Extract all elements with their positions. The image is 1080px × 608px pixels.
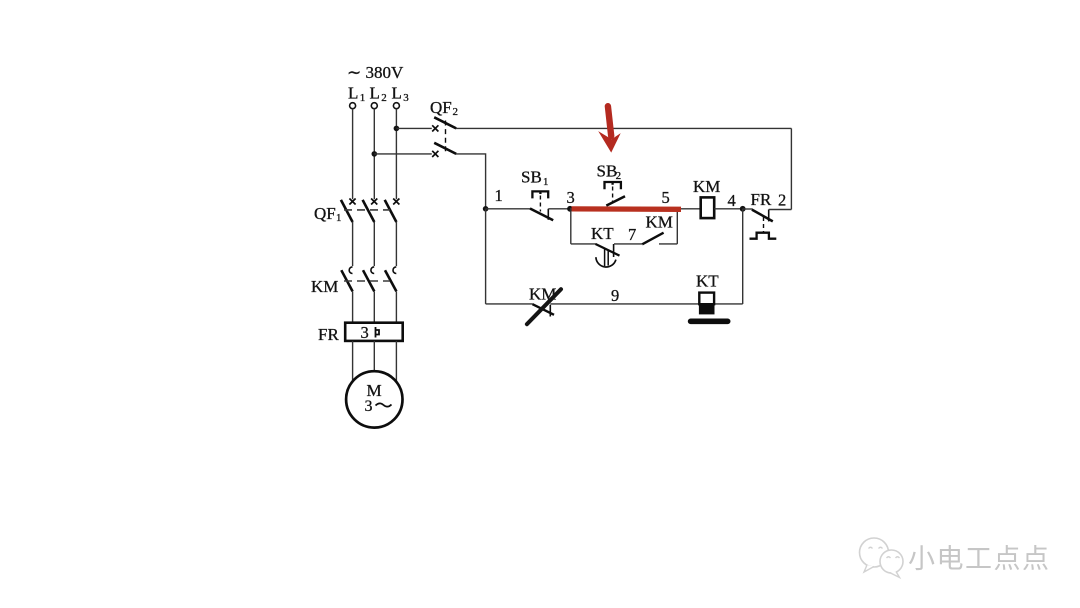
wire L2 vertical	[373, 109, 375, 200]
KM pole2 arc	[371, 267, 374, 274]
wire to QF2 pole2	[374, 153, 432, 155]
KT black bar	[691, 318, 728, 324]
wire L2 mid	[373, 222, 375, 266]
KM pole1 arc	[349, 267, 352, 274]
svg-text:SB: SB	[597, 161, 618, 180]
svg-text:L: L	[348, 84, 358, 103]
node 1	[483, 206, 489, 212]
bottom rung right	[550, 303, 742, 305]
QF1 pole2 blade	[363, 200, 375, 222]
branch bottom left wire	[571, 243, 596, 245]
wire L3 vertical	[395, 109, 397, 200]
branch left vertical	[570, 209, 572, 244]
svg-text:∼ 380V: ∼ 380V	[347, 63, 404, 82]
branch right vertical	[676, 209, 678, 244]
QF1 pole3 x	[393, 199, 399, 205]
QF1 pole3 blade	[385, 200, 397, 222]
wire L1 low	[352, 291, 354, 322]
QF1 pole2 x	[371, 199, 377, 205]
red arrow shaft	[608, 106, 611, 136]
svg-text:2: 2	[381, 92, 387, 104]
terminal L2	[371, 103, 377, 109]
KM pole2 blade	[363, 270, 374, 291]
svg-text:7: 7	[628, 225, 636, 244]
wire L1 mid	[352, 222, 354, 266]
KT delayed contact blade	[596, 244, 620, 256]
svg-text:3: 3	[361, 323, 369, 342]
KT delay stems	[605, 249, 609, 266]
svg-text:KT: KT	[591, 224, 614, 243]
svg-text:QF: QF	[314, 204, 336, 223]
KM nc stub	[549, 305, 551, 317]
FR box heater glyph	[376, 327, 380, 338]
watermark icon	[860, 538, 904, 578]
QF1 dashed link	[344, 209, 390, 211]
top rail wire	[456, 127, 792, 129]
bottom rung left	[486, 303, 533, 305]
FR short wire	[743, 208, 753, 210]
svg-text:KM: KM	[646, 213, 673, 232]
terminal L1	[350, 103, 356, 109]
SB2 button cap	[605, 182, 621, 189]
branch bottom right wire	[659, 243, 677, 245]
QF2 pole1 blade	[434, 117, 456, 128]
svg-text:KM: KM	[693, 177, 720, 196]
svg-text:FR: FR	[318, 325, 339, 344]
svg-text:4: 4	[728, 191, 736, 210]
FR right stub	[768, 210, 770, 222]
FR blade	[752, 210, 773, 222]
KM coil	[701, 197, 715, 218]
svg-text:2: 2	[778, 191, 786, 210]
svg-text:1: 1	[336, 212, 342, 224]
wire L2 to motor	[373, 341, 375, 371]
black crossout over KM nc	[527, 289, 561, 324]
svg-text:QF: QF	[430, 98, 452, 117]
FR box	[345, 323, 403, 341]
SB1 plunger dashed	[539, 196, 541, 212]
svg-text:5: 5	[662, 188, 670, 207]
svg-text:1: 1	[360, 92, 366, 104]
KT delay cup arc	[596, 257, 616, 267]
svg-text:小电工点点: 小电工点点	[908, 544, 1051, 574]
QF2 link dashed	[445, 121, 447, 152]
QF1 pole1 blade	[341, 200, 353, 222]
svg-text:3: 3	[403, 92, 409, 104]
KM aux NO blade	[642, 233, 663, 245]
KM nc blade	[533, 304, 555, 315]
svg-text:3: 3	[567, 188, 575, 207]
SB1 right stub	[547, 209, 549, 220]
wire node1 to SB1	[486, 208, 531, 210]
svg-text:FR: FR	[751, 190, 772, 209]
FR out wire	[769, 209, 792, 211]
node on L2	[372, 151, 378, 157]
branch bottom mid wire	[614, 243, 642, 245]
terminal L3	[393, 103, 399, 109]
svg-text:9: 9	[611, 286, 619, 305]
svg-text:1: 1	[495, 186, 503, 205]
svg-text:KM: KM	[311, 277, 338, 296]
wire coil to node4	[714, 208, 743, 210]
svg-text:3: 3	[365, 398, 373, 415]
FR plunger dashed	[763, 217, 765, 232]
wire L3 low	[395, 291, 397, 322]
node 3	[567, 206, 573, 212]
SB2 plunger dashed	[612, 187, 614, 203]
wire L3 mid	[395, 222, 397, 266]
svg-text:L: L	[392, 84, 402, 103]
FR heater bump	[750, 233, 777, 239]
svg-text:KT: KT	[696, 272, 719, 291]
SB2 blade	[606, 196, 625, 205]
svg-text:L: L	[370, 84, 380, 103]
wire L3 to motor	[395, 341, 397, 382]
KM pole3 blade	[385, 270, 396, 291]
node on L3	[394, 126, 400, 132]
wire node4 down	[742, 209, 744, 304]
svg-text:2: 2	[453, 106, 459, 118]
KM pole1 blade	[341, 270, 352, 291]
left control wire down	[485, 209, 487, 304]
KT contact right stub	[613, 244, 615, 257]
QF2 pole2 blade	[434, 143, 456, 154]
wire to QF2 pole1	[396, 127, 431, 129]
red highlight bar 3-5	[572, 206, 681, 212]
QF1 pole1 x	[349, 199, 355, 205]
wire L2 low	[373, 291, 375, 322]
QF2 pole1 x mark	[432, 125, 438, 131]
right bus wire	[790, 128, 792, 209]
wire L1 vertical	[352, 109, 354, 200]
wire L1 to motor	[352, 341, 354, 382]
svg-text:2: 2	[616, 170, 622, 182]
KT coil box	[699, 293, 714, 305]
node 4	[740, 206, 746, 212]
SB1 button cap	[532, 191, 548, 198]
KT coil filled half	[699, 304, 715, 314]
KM pole3 arc	[393, 267, 396, 274]
SB1 blade	[530, 209, 553, 221]
red arrow head	[598, 131, 621, 153]
motor tilde	[376, 403, 392, 406]
QF2 pole2 x mark	[432, 151, 438, 157]
wire QF2 pole2 out	[456, 154, 486, 209]
wire SB1 to node3	[548, 208, 570, 210]
KM dashed link	[344, 280, 390, 282]
svg-text:1: 1	[543, 176, 549, 188]
motor M circle	[346, 371, 402, 427]
svg-text:SB: SB	[521, 167, 542, 186]
wire node3 to KM coil (under red)	[570, 208, 701, 210]
